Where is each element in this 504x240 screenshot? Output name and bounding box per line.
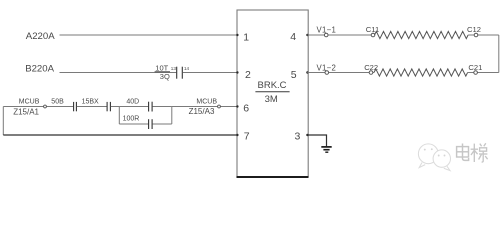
wire 50B to 15BX (77, 106, 107, 108)
junction dot pin 5 (306, 71, 308, 73)
svg-text:B220A: B220A (25, 64, 54, 75)
watermark text ti (梯) (471, 143, 488, 162)
block bottom edge (thick) (237, 176, 309, 178)
contact 40D bar right (151, 102, 153, 112)
svg-text:1: 1 (243, 31, 249, 43)
contact 100R bar right (151, 119, 153, 129)
top branch wire right (153, 106, 172, 108)
wire pin 5 to resistor C22 (307, 72, 374, 74)
svg-text:4: 4 (290, 31, 296, 43)
wire contact to pin 2 (183, 72, 238, 74)
svg-text:BRK.C: BRK.C (258, 80, 287, 91)
wire A220A to pin 1 (60, 34, 238, 36)
svg-text:Z15/A1: Z15/A1 (13, 108, 39, 117)
watermark wechat logo (418, 144, 450, 171)
terminal circle C22 (369, 71, 373, 75)
svg-text:3M: 3M (265, 94, 278, 105)
svg-text:3Q: 3Q (160, 72, 170, 81)
junction dot pin 4 (306, 34, 308, 36)
contact 50B bar left (73, 102, 75, 111)
svg-text:C12: C12 (467, 25, 481, 34)
contact 15BX bar right (109, 102, 111, 111)
svg-text:5: 5 (291, 69, 297, 81)
svg-text:Z15/A3: Z15/A3 (189, 107, 215, 116)
svg-text:2: 2 (245, 69, 251, 81)
svg-text:MCUB: MCUB (196, 98, 217, 105)
contact 100R bar left (148, 119, 150, 129)
svg-text:3: 3 (295, 131, 301, 143)
contact 40D bar left (148, 102, 150, 112)
terminal circle C12 (474, 33, 478, 37)
junction dot pin 6 (236, 105, 238, 107)
junction dot pin 2 (236, 71, 238, 73)
junction dot pin 7 (236, 134, 238, 136)
contact 15BX bar left (106, 102, 108, 111)
svg-text:A220A: A220A (26, 31, 55, 42)
terminal circle V1-2 (325, 71, 329, 75)
fraction line (255, 91, 289, 93)
contact 10T/3Q bar 13 (176, 67, 178, 79)
contact 10T/3Q bar 14 (181, 67, 183, 79)
wire B220A to contact 10T (60, 72, 177, 74)
terminal circle C11 (371, 33, 375, 37)
ground bar 2 (323, 149, 329, 151)
junction dot pin 3 (306, 134, 308, 136)
watermark text dian (电) (457, 144, 469, 161)
svg-text:14: 14 (184, 66, 190, 71)
svg-text:7: 7 (244, 130, 250, 142)
label fraction line 10T/3Q (155, 71, 170, 73)
wire pin 4 to resistor C11 (307, 34, 374, 36)
ground bar 1 (321, 146, 331, 148)
terminal circle C21 (474, 71, 478, 75)
wire zigzag to corner (468, 34, 499, 36)
branch left vertical (118, 107, 120, 125)
svg-text:13: 13 (171, 66, 177, 71)
top branch wire left (119, 106, 148, 108)
bottom branch wire left (119, 123, 148, 125)
watermark wechat logo eyes (424, 148, 446, 156)
resistor C22-C21 zigzag (374, 69, 468, 76)
svg-text:100R: 100R (123, 115, 140, 122)
right vertical connecting wire (498, 35, 500, 73)
wire pin 3 to ground (307, 135, 326, 146)
junction dot pin 1 (236, 34, 238, 36)
terminal circle V1-1 (324, 33, 328, 37)
svg-text:6: 6 (243, 103, 249, 115)
left vertical wire (2, 107, 4, 136)
svg-text:10T: 10T (155, 63, 168, 72)
resistor C11-C12 zigzag (375, 31, 469, 38)
branch right vertical (171, 107, 173, 125)
svg-text:40D: 40D (126, 99, 139, 106)
contact 50B bar right (75, 102, 77, 111)
ground bar 3 (325, 151, 328, 153)
svg-text:15BX: 15BX (82, 98, 99, 105)
svg-text:MCUB: MCUB (19, 98, 40, 105)
chain wire start to contact 50B (3, 106, 73, 108)
bottom branch wire right (153, 123, 172, 125)
wire branch to pin 6 (172, 106, 238, 108)
bottom wire to pin 7 (3, 134, 237, 136)
block U1 BRK.C 3M rectangle (237, 10, 308, 177)
svg-text:50B: 50B (51, 98, 64, 105)
wire zigzag to corner (468, 72, 499, 74)
wire 15BX to branch (111, 106, 120, 108)
node circle Z15/A3 (218, 105, 221, 108)
node circle Z15/A1 (44, 105, 47, 108)
